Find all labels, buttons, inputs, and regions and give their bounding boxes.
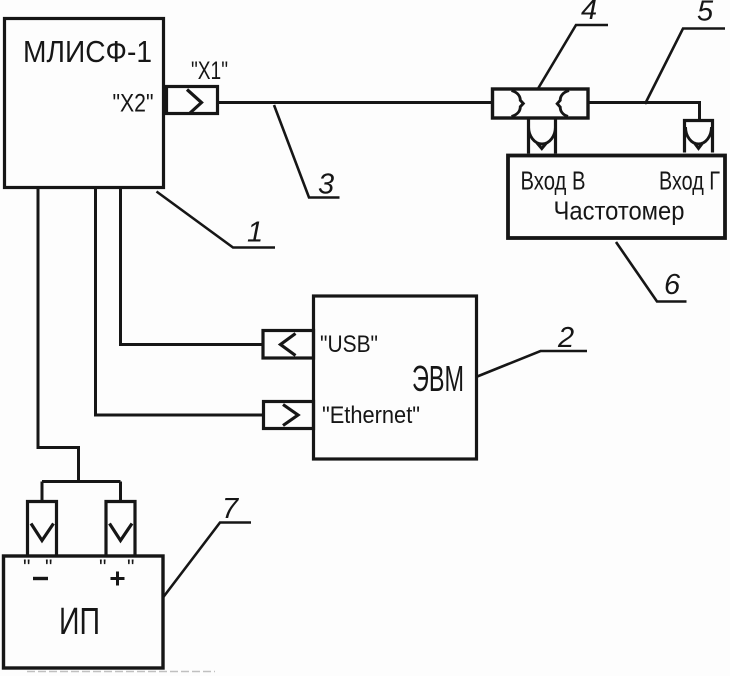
svg-text:6: 6 (664, 269, 681, 301)
wire tee to Вход Г connector (item 5) (588, 103, 700, 121)
connector at ИП minus terminal (28, 502, 57, 556)
scan artifact line (27, 671, 215, 673)
connector at Вход Г (685, 121, 713, 153)
svg-text:Вход Г: Вход Г (659, 166, 720, 196)
svg-text:ЭВМ: ЭВМ (412, 358, 464, 399)
tee left socket arc (512, 91, 524, 117)
connector at ИП plus terminal (106, 502, 135, 556)
svg-text:3: 3 (318, 169, 334, 201)
block power supply ИП (item 7) (4, 556, 164, 668)
leader line 3 (274, 105, 340, 198)
svg-text:": " (23, 556, 30, 579)
tee stem walls (529, 118, 556, 154)
svg-text:Вход В: Вход В (521, 166, 586, 196)
svg-text:"USB": "USB" (320, 331, 378, 358)
block U1 МЛИСФ-1 (5, 19, 164, 188)
connector Ethernet (264, 402, 314, 429)
tee stem socket arc (529, 127, 556, 149)
svg-text:7: 7 (222, 493, 240, 525)
svg-text:": " (127, 556, 134, 579)
label "-" terminal (23, 556, 52, 579)
svg-text:"Х2": "Х2" (113, 90, 154, 118)
leader line 6 (616, 242, 687, 302)
wire drop to plus connector (119, 482, 122, 502)
connector USB (263, 331, 314, 359)
wire МЛИСФ-1 to USB (121, 188, 264, 345)
leader line 2 (476, 351, 587, 377)
leader line 1 (157, 192, 276, 248)
Вход Г socket arc (686, 127, 712, 149)
leader line 7 (163, 523, 251, 598)
tee connector (item 4) body (493, 89, 589, 118)
wire power splitter bar (42, 480, 121, 483)
svg-text:ИП: ИП (59, 601, 100, 643)
block frequency counter Частотомер (item 6) (508, 156, 725, 239)
svg-text:1: 1 (247, 217, 263, 249)
svg-text:Частотомер: Частотомер (554, 196, 685, 226)
svg-text:": " (99, 556, 106, 579)
svg-text:"Х1": "Х1" (191, 57, 228, 85)
connector X1 (plug at МЛИСФ-1 output) (167, 87, 218, 114)
wire МЛИСФ-1 to power supply (38, 188, 79, 482)
svg-text:МЛИСФ-1: МЛИСФ-1 (23, 34, 152, 69)
leader line 5 (645, 29, 725, 105)
svg-text:"Ethernet": "Ethernet" (322, 402, 420, 429)
wire drop to minus connector (41, 482, 44, 502)
svg-text:5: 5 (697, 0, 714, 28)
block computer ЭВМ (item 2) (314, 296, 477, 459)
tee right socket arc (557, 91, 569, 117)
label "+" terminal (99, 556, 134, 586)
svg-text:2: 2 (557, 322, 574, 354)
wire МЛИСФ-1 to Ethernet (96, 188, 264, 415)
svg-text:4: 4 (581, 0, 597, 26)
leader line 4 (538, 25, 609, 90)
wire X1 to tee (218, 101, 494, 104)
svg-text:": " (45, 556, 52, 579)
